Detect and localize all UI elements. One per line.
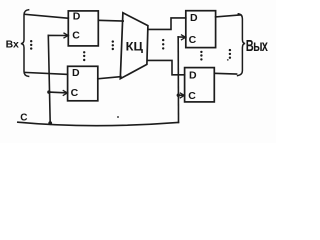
wire FF1 output to KC	[98, 19, 123, 22]
svg-text:D: D	[189, 69, 197, 81]
dots between FF3 and FF4	[200, 51, 202, 61]
wire riser to C of FF3	[178, 36, 186, 38]
svg-text:Вых: Вых	[246, 37, 269, 54]
svg-text:D: D	[73, 10, 81, 22]
wire FF3 output to output brace	[216, 15, 241, 17]
svg-text:C: C	[189, 34, 197, 46]
wire riser to C of FF1	[48, 34, 68, 36]
FF4 dynamic C input arrow	[180, 93, 184, 98]
svg-text:D: D	[190, 12, 198, 24]
FF3 dynamic C input arrow	[182, 35, 186, 40]
wire riser to C of FF2	[49, 91, 68, 94]
wire input bottom to D of FF2	[25, 72, 68, 74]
input brace {	[21, 10, 29, 77]
junction dot riser-FF2C	[47, 90, 50, 93]
svg-text:Вх: Вх	[6, 39, 19, 51]
FF2 dynamic C input arrow	[63, 91, 67, 96]
dots input bus	[30, 40, 32, 50]
svg-text:D: D	[72, 67, 80, 79]
wire KC bottom output to D of FF4 (with jog)	[147, 60, 184, 74]
dots between FF1 and FF2	[83, 51, 85, 61]
junction dot riser-FF4C	[177, 94, 180, 97]
left clock riser	[48, 35, 50, 123]
dots output bus	[229, 49, 231, 59]
flip-flop FF4 box	[185, 68, 215, 102]
right clock riser	[177, 37, 179, 123]
wire riser to C of FF4	[178, 94, 184, 96]
wire input top to D of FF1	[25, 14, 69, 18]
wire FF2 output to KC	[98, 77, 121, 79]
svg-text:C: C	[188, 90, 196, 102]
flip-flop FF2 box	[68, 66, 98, 101]
svg-text:C: C	[72, 30, 80, 42]
clock wire (bottom horizontal)	[18, 122, 179, 125]
flip-flop FF1 box	[68, 11, 98, 46]
FF1 dynamic C input arrow	[64, 33, 68, 38]
flip-flop FF3 box	[186, 11, 216, 48]
junction dot riser-clock	[48, 121, 52, 125]
output brace }	[238, 14, 246, 76]
wire KC top output to D of FF3 (with jog)	[148, 18, 186, 30]
speck noise 1	[117, 116, 119, 118]
wire FF4 output to output brace	[214, 72, 236, 75]
KC switching block (trapezoid)	[120, 13, 148, 79]
dots right of KC	[162, 39, 164, 50]
svg-text:КЦ: КЦ	[126, 40, 144, 54]
dots left of KC	[112, 40, 114, 50]
speck noise 2	[227, 59, 229, 61]
svg-text:C: C	[71, 87, 79, 99]
